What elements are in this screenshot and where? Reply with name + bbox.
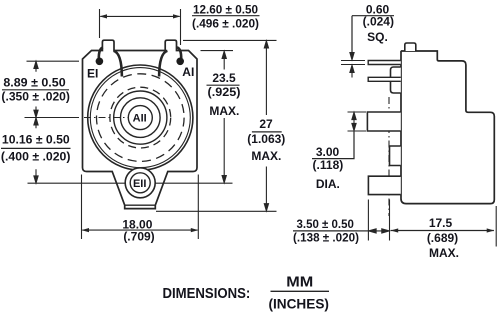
pin dot AI: [176, 58, 184, 66]
side view pin 1: [368, 61, 401, 65]
side view main body outline: [401, 51, 495, 204]
dim 17.5 arrows: [391, 228, 495, 232]
centerline dash-dot through AII: [84, 117, 134, 119]
side view small square: [390, 146, 401, 166]
svg-text:(.925): (.925): [208, 85, 241, 99]
wire tab to coil right: [159, 51, 167, 77]
dim 10.16 fraction bar: [1, 147, 71, 149]
coil circle r26: [114, 91, 167, 144]
svg-text:MAX.: MAX.: [209, 104, 239, 118]
svg-text:(.709): (.709): [123, 230, 154, 244]
coil outer circle: [88, 65, 193, 170]
svg-text:10.16 ± 0.50: 10.16 ± 0.50: [2, 133, 70, 147]
svg-text:8.89 ± 0.50: 8.89 ± 0.50: [3, 75, 66, 89]
svg-text:(.118): (.118): [313, 158, 344, 172]
dim 27 fraction bar: [252, 131, 282, 133]
dim 18.00 arrows: [82, 228, 199, 232]
dim 18.00 extension line right: [197, 175, 199, 240]
svg-text:23.5: 23.5: [212, 71, 236, 85]
dim 27 line lower: [264, 167, 268, 211]
EII inner circle: [130, 173, 150, 193]
extension line AII center left: [25, 117, 80, 119]
dim 3.00 arrows: [352, 113, 356, 131]
dim 0.60 extension lines: [341, 61, 365, 65]
dim 10.16 arrow down: [34, 169, 38, 183]
extension line EII center: [28, 182, 233, 184]
svg-text:12.60 ± 0.50: 12.60 ± 0.50: [193, 2, 258, 16]
dim 3.50 fraction bar: [293, 230, 358, 232]
dim 8.89 arrow down: [34, 107, 38, 118]
svg-text:(.400 ± .020): (.400 ± .020): [1, 150, 71, 164]
dim 27 extension line bottom: [156, 210, 277, 212]
svg-text:3.00: 3.00: [316, 145, 340, 159]
svg-text:EII: EII: [133, 178, 146, 190]
dim 3.00 leader: [344, 131, 355, 159]
side view centerline of pins: [388, 97, 390, 216]
wire AI to tab: [177, 47, 181, 63]
svg-text:17.5: 17.5: [429, 216, 453, 230]
dim 12.60 extension line left: [99, 9, 101, 38]
dim 18.00 extension line left: [81, 175, 83, 240]
dim 3.50 tail: [358, 230, 369, 232]
svg-text:EI: EI: [87, 67, 98, 81]
bottom tab lip line: [125, 204, 156, 206]
dim 3.00 fraction bar: [312, 158, 344, 160]
dimensions legend fraction bar: [271, 290, 330, 292]
dim 10.16 arrow up: [34, 118, 38, 129]
wire EI to tab: [99, 47, 103, 63]
front view body outline: [83, 40, 198, 208]
side view bottom block: [368, 176, 400, 194]
dim 18.00 line: [82, 229, 197, 231]
svg-text:MM: MM: [286, 274, 313, 291]
dim 0.60 arrow down: [350, 53, 354, 60]
dim 17.5 extension line right: [495, 206, 497, 247]
coil dashed circle outer: [97, 74, 185, 162]
dim 12.60 fraction bar: [192, 15, 260, 17]
svg-text:SQ.: SQ.: [367, 30, 388, 44]
dim 23.5 line upper: [222, 51, 226, 69]
svg-text:(INCHES): (INCHES): [268, 296, 329, 312]
coil circle r19: [121, 98, 161, 138]
dim 23.5 line lower: [222, 118, 226, 183]
svg-text:AI: AI: [182, 65, 194, 79]
dim 17.5 line: [391, 230, 494, 232]
dim 3.00 extension lines: [348, 112, 367, 131]
svg-text:(.138 ± .020): (.138 ± .020): [293, 230, 359, 244]
pin dot EI: [96, 58, 104, 66]
coil dashed circle inner: [110, 87, 171, 148]
svg-text:(.350 ± .020): (.350 ± .020): [1, 89, 70, 103]
dim 3.50 arrows outward: [369, 229, 390, 233]
dim 23.5 fraction bar: [207, 84, 240, 86]
dim 8.89 fraction bar: [2, 89, 69, 91]
svg-text:MAX.: MAX.: [429, 246, 459, 260]
dim 3.50 extension line right: [389, 200, 391, 241]
dim 12.60 arrows: [100, 14, 181, 18]
svg-text:3.50 ± 0.50: 3.50 ± 0.50: [297, 217, 355, 231]
side view pin 2: [368, 77, 401, 81]
dim 8.89 arrow up: [34, 61, 38, 71]
side view top tab: [405, 43, 416, 51]
side view flange: [391, 67, 401, 93]
wire tab to coil left: [114, 51, 122, 77]
dim 27 line upper: [264, 41, 268, 115]
dim 0.60 leader and bar: [352, 16, 394, 54]
dim 3.50 extension line left: [367, 200, 369, 241]
svg-text:DIA.: DIA.: [316, 177, 340, 191]
svg-text:(.689): (.689): [427, 231, 458, 245]
svg-text:(.024): (.024): [363, 15, 394, 29]
svg-text:DIMENSIONS:: DIMENSIONS:: [163, 286, 251, 302]
AII circle: [128, 106, 152, 130]
dim 12.60 line: [100, 15, 179, 17]
svg-text:AII: AII: [133, 112, 147, 124]
EII outer circle: [125, 168, 155, 198]
svg-text:MAX.: MAX.: [251, 149, 281, 163]
svg-text:(.496 ± .020): (.496 ± .020): [192, 17, 259, 31]
svg-text:27: 27: [259, 117, 273, 131]
dim 0.60 arrow up: [350, 65, 354, 77]
extension line pins EI/AI level: [27, 60, 80, 62]
dim 12.60 extension line right: [180, 9, 182, 45]
side view wide block: [367, 112, 400, 131]
svg-text:(1.063): (1.063): [247, 132, 285, 146]
dim 23.5 extension line top: [201, 50, 234, 52]
coil second circle: [90, 68, 190, 168]
dim 27 extension line top: [183, 39, 277, 41]
